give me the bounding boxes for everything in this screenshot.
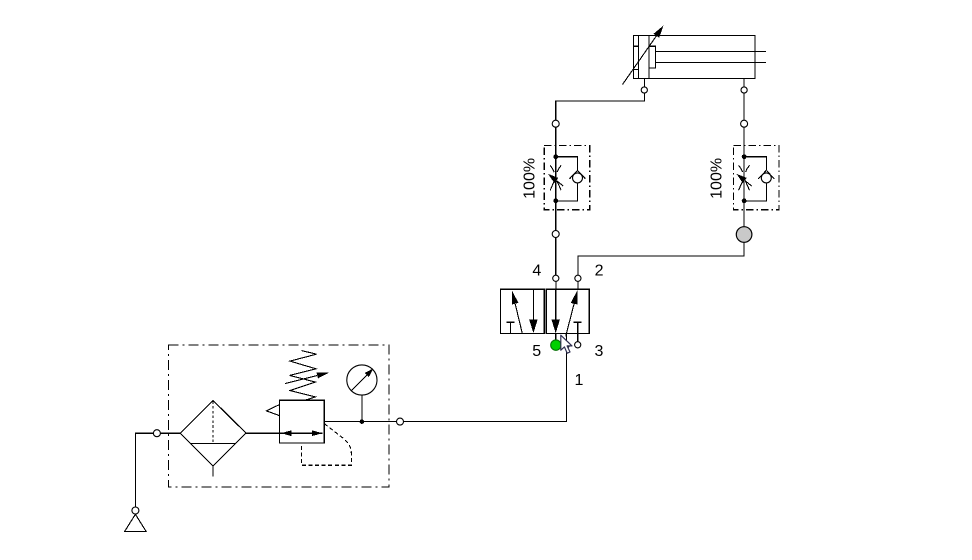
flow control valve 1V1 check ball bbox=[573, 173, 583, 183]
regulator pilot dashed line bbox=[301, 424, 351, 466]
valve 1S right down arrow bbox=[555, 289, 557, 320]
regulator double arrow bbox=[281, 430, 292, 436]
valve port 1 circle bbox=[563, 342, 569, 348]
flow control valve 1V2 adjust arrow bbox=[745, 181, 752, 186]
mouse cursor bbox=[561, 335, 572, 353]
flow control valve 1V2 check seat bbox=[758, 170, 774, 179]
service unit 0Z enclosure bbox=[169, 345, 389, 487]
cylinder 1A body bbox=[633, 35, 755, 78]
cylinder cushion block bbox=[649, 46, 655, 68]
pressure gauge stem bbox=[361, 395, 363, 422]
valve 1S right position box bbox=[546, 289, 589, 333]
valve 1S right blocked port T bbox=[574, 322, 582, 333]
filter diamond bbox=[180, 400, 246, 466]
flow control valve 1V2 check branch bbox=[744, 157, 766, 201]
cylinder piston bbox=[638, 35, 649, 78]
cylinder left port circle bbox=[641, 87, 647, 93]
regulator spring bbox=[290, 351, 317, 401]
valve 1S port stubs bbox=[556, 281, 578, 341]
node circle on output line bbox=[397, 418, 404, 425]
pressure gauge body bbox=[347, 365, 377, 395]
wire filter to regulator bbox=[246, 432, 322, 434]
flow control valve 1V2 enclosure bbox=[734, 146, 780, 210]
svg-text:100%: 100% bbox=[522, 158, 539, 199]
filter drain stub bbox=[212, 466, 214, 476]
valve 1S left position box bbox=[500, 289, 544, 333]
pressure gauge needle bbox=[351, 374, 367, 390]
flow control valve 1V1 enclosure bbox=[544, 146, 590, 210]
wire cylinder right port to plug bbox=[578, 93, 744, 275]
filter separator line bbox=[191, 443, 236, 445]
compressed air source triangle bbox=[125, 514, 147, 531]
valve 1S right diagonal arrow bbox=[566, 304, 574, 337]
svg-text:5: 5 bbox=[532, 343, 541, 360]
flow control valve 1V1 adjust arrow bbox=[557, 181, 564, 186]
flow control valve 1V2 check ball bbox=[761, 173, 771, 183]
cylinder right port circle bbox=[741, 87, 747, 93]
wire cylinder left port to valve port 4 bbox=[556, 93, 645, 275]
cylinder piston rod bbox=[656, 51, 767, 62]
filter dashed center line bbox=[212, 401, 214, 443]
flow control valve 1V1 junction dots bbox=[553, 154, 558, 159]
valve 1S left blocked port T bbox=[507, 322, 515, 333]
flow control valve 1V1 check branch bbox=[556, 157, 578, 201]
wire air supply to filter bbox=[135, 433, 180, 507]
valve 1S left down arrow bbox=[532, 289, 534, 320]
blanking plug on line bbox=[736, 227, 752, 243]
cylinder cushion adjust arrow bbox=[623, 35, 658, 85]
flow control valve 1V1 throttle arcs bbox=[550, 165, 561, 190]
svg-text:2: 2 bbox=[595, 263, 604, 280]
wire valve port 1 to service unit output bbox=[324, 348, 566, 422]
valve port 4 circle bbox=[553, 275, 559, 281]
svg-text:3: 3 bbox=[595, 343, 604, 360]
svg-text:100%: 100% bbox=[709, 158, 726, 199]
regulator output line bbox=[324, 421, 400, 423]
valve port 3 circle bbox=[575, 342, 581, 348]
node circle at air source bbox=[132, 507, 139, 514]
flow control valve 1V1 check seat bbox=[569, 170, 585, 179]
svg-text:1: 1 bbox=[574, 372, 583, 389]
valve port 2 circle bbox=[575, 275, 581, 281]
flow control valve 1V2 throttle arcs bbox=[739, 165, 750, 190]
cylinder cushion seal dividers bbox=[633, 46, 638, 69]
cylinder port stubs bbox=[644, 79, 744, 87]
regulator adjust arrow bbox=[285, 376, 317, 384]
regulator relief triangle bbox=[266, 405, 279, 416]
node circle on left wire lower bbox=[552, 231, 559, 238]
pressure gauge junction dot bbox=[360, 419, 365, 424]
valve port 5 green marker bbox=[551, 340, 561, 350]
flow control valve 1V2 junction dots bbox=[742, 154, 747, 159]
node circle on left wire upper bbox=[552, 120, 559, 127]
regulator box bbox=[279, 400, 324, 443]
svg-text:4: 4 bbox=[532, 263, 541, 280]
node circle at filter input bbox=[153, 430, 160, 437]
node circle on right wire upper bbox=[741, 120, 748, 127]
valve 1S left diagonal arrow bbox=[515, 304, 522, 334]
